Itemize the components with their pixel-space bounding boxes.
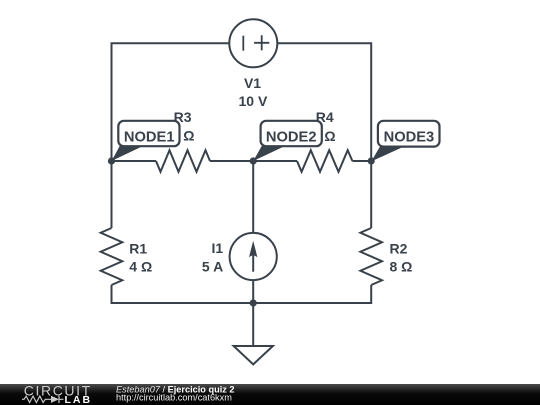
I1 arrow head xyxy=(249,241,257,257)
node NODE3 callout box xyxy=(378,121,440,147)
svg-text:Ω: Ω xyxy=(183,127,194,143)
junction bottom rail / ground xyxy=(250,299,257,306)
svg-text:Ω: Ω xyxy=(324,128,335,144)
junction node 2 xyxy=(250,157,257,164)
wire bottom-right rail xyxy=(253,285,371,303)
svg-text:LAB: LAB xyxy=(65,394,93,405)
node NODE1 callout box xyxy=(118,121,179,146)
svg-text:8 Ω: 8 Ω xyxy=(390,259,413,275)
svg-text:NODE3: NODE3 xyxy=(384,130,435,146)
current source I1 circle xyxy=(230,233,277,280)
resistor R1 xyxy=(101,228,123,285)
svg-text:10 V: 10 V xyxy=(238,93,267,109)
V1 minus terminal mark xyxy=(242,36,244,51)
node NODE2 callout box xyxy=(261,121,322,146)
junction node 3 xyxy=(368,157,375,164)
junction node 1 xyxy=(108,157,115,164)
footer bar xyxy=(0,384,540,405)
wire bottom rail to ground xyxy=(252,303,254,346)
wire node1 to R3 xyxy=(112,160,157,162)
wire I1 bottom to bottom rail xyxy=(252,280,254,303)
svg-text:R1: R1 xyxy=(129,240,147,256)
wire node2 to I1 top xyxy=(252,161,254,233)
resistor R2 xyxy=(360,228,382,285)
svg-text:5 A: 5 A xyxy=(202,259,223,275)
svg-text:R2: R2 xyxy=(390,240,408,256)
wire R4 to node3 xyxy=(352,160,371,162)
logo resistor glyph xyxy=(22,396,50,402)
I1 arrow shaft xyxy=(252,250,254,272)
wire top-right from V1 right terminal to right rail xyxy=(277,43,371,228)
svg-text:4 Ω: 4 Ω xyxy=(129,259,152,275)
resistor R4 xyxy=(297,150,352,172)
voltage source V1 circle xyxy=(229,19,277,67)
ground symbol xyxy=(234,346,273,364)
wire R3 to node2 to R4 xyxy=(210,160,297,162)
logo diode glyph xyxy=(50,396,64,403)
svg-text:I1: I1 xyxy=(212,240,224,256)
svg-text:NODE1: NODE1 xyxy=(124,130,175,146)
wire top-left from V1 left terminal to left rail xyxy=(112,43,230,228)
node NODE2 callout tail xyxy=(253,146,286,162)
node NODE3 callout tail xyxy=(371,147,404,162)
wire bottom-left rail xyxy=(112,285,254,303)
resistor R3 xyxy=(156,150,210,172)
svg-text:NODE2: NODE2 xyxy=(266,130,317,146)
svg-text:V1: V1 xyxy=(244,75,261,91)
V1 plus terminal mark xyxy=(254,35,269,50)
node NODE1 callout tail xyxy=(112,146,145,162)
svg-text:http://circuitlab.com/cat6kxm: http://circuitlab.com/cat6kxm xyxy=(116,392,232,402)
